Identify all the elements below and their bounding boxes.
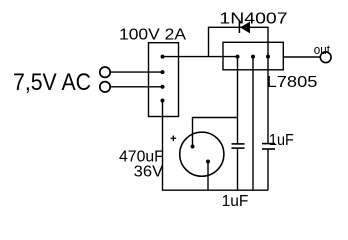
svg-text:out: out	[314, 43, 331, 57]
svg-text:100V 2A: 100V 2A	[119, 27, 186, 44]
svg-text:36V: 36V	[134, 164, 164, 181]
svg-text:7,5V AC: 7,5V AC	[13, 69, 91, 96]
svg-text:L7805: L7805	[267, 74, 318, 91]
svg-text:1uF: 1uF	[222, 193, 249, 210]
svg-text:1N4007: 1N4007	[219, 11, 287, 28]
svg-text:1uF: 1uF	[269, 132, 294, 149]
